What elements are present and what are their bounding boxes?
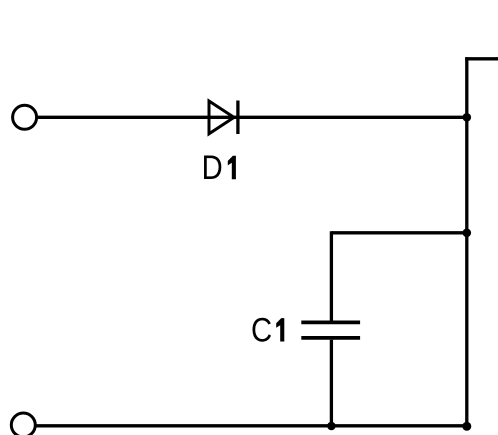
label C1 bbox=[251, 310, 284, 349]
label D1 bbox=[202, 148, 236, 187]
svg-text:C: C bbox=[251, 310, 272, 349]
terminal (bottom-left input) bbox=[11, 413, 35, 435]
diode D1 bbox=[209, 101, 238, 135]
svg-text:D: D bbox=[202, 148, 223, 187]
wire (capacitor bottom lead) bbox=[330, 340, 333, 426]
wire (right vertical bus) bbox=[465, 57, 468, 426]
node (capacitor branch / bus junction) bbox=[463, 229, 472, 238]
wire (top: terminal to right bus, through D1) bbox=[38, 116, 467, 119]
capacitor C1 bbox=[301, 322, 360, 338]
wire (top-right output, exits right edge) bbox=[465, 57, 498, 60]
node (diode cathode / bus junction) bbox=[463, 113, 472, 122]
wire (capacitor top branch) bbox=[331, 231, 466, 322]
wire (bottom: terminal to right bus) bbox=[37, 424, 467, 427]
terminal (top-left input) bbox=[13, 105, 37, 129]
node (capacitor lead / bottom wire junction) bbox=[327, 422, 336, 431]
node (bottom wire / bus junction) bbox=[462, 422, 471, 431]
